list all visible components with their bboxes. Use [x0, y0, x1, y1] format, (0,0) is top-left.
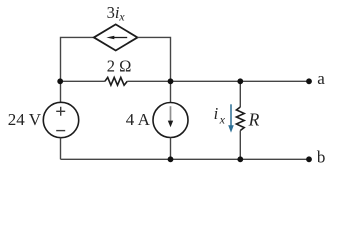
resistor 2 ohm (horizontal zigzag) — [105, 77, 127, 85]
label ix (blue) — [214, 104, 226, 126]
junction node (170.5,159) — [168, 156, 174, 162]
svg-text:b: b — [317, 147, 326, 166]
label a — [317, 69, 325, 88]
dependent current source 3ix (diamond) — [94, 24, 138, 50]
svg-text:R: R — [248, 110, 260, 130]
terminal node a dot — [306, 78, 312, 84]
wire: left vertical, node(60,81) down to voltage source — [60, 81, 62, 102]
junction node (170.5,81) — [168, 78, 174, 84]
wire: mid rail left segment — [61, 80, 105, 82]
svg-text:3i: 3i — [107, 3, 120, 22]
wire: right vertical above resistor R — [239, 81, 241, 107]
svg-text:4 A: 4 A — [126, 110, 151, 129]
label 3ix — [107, 3, 126, 24]
junction node (240,81) — [237, 78, 243, 84]
terminal node b dot — [306, 156, 312, 162]
wire: middle vertical below current source — [170, 138, 172, 160]
wire: left vertical top segment, node(60,81) up to top rail corner — [61, 37, 95, 81]
svg-text:a: a — [317, 69, 325, 88]
svg-text:2 Ω: 2 Ω — [107, 56, 132, 75]
voltage source 24V (circle with plus/minus) — [43, 102, 78, 137]
svg-text:x: x — [118, 10, 125, 24]
wire: middle vertical above current source — [170, 81, 172, 102]
svg-text:x: x — [219, 112, 226, 126]
current source 4A (circle with down arrow) — [153, 103, 188, 138]
wire: mid rail from resistor to terminal a — [127, 80, 309, 82]
label b — [317, 147, 326, 166]
wire: bottom rail — [61, 158, 310, 160]
label 24 V — [8, 110, 42, 129]
label R — [248, 110, 260, 130]
junction node (60,81) — [57, 78, 63, 84]
svg-text:24 V: 24 V — [8, 110, 42, 129]
wire: right vertical below resistor R — [239, 131, 241, 160]
current arrow ix (blue) — [228, 104, 234, 132]
label 4 A — [126, 110, 151, 129]
resistor R (vertical zigzag) — [236, 107, 244, 131]
svg-text:i: i — [214, 104, 219, 123]
wire: top rail right of diamond, down to node(170.5,81) — [138, 37, 171, 81]
label 2 ohm — [107, 56, 132, 75]
wire: below voltage source to bottom rail — [60, 138, 62, 160]
junction node (240,159) — [237, 156, 243, 162]
